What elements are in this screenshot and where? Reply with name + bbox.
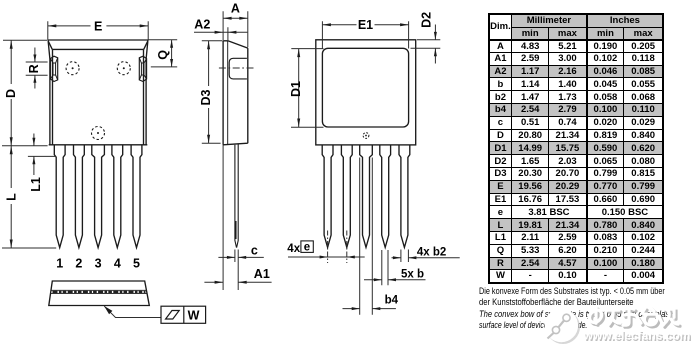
bottom view lead row (dashes) <box>53 291 146 293</box>
note line 2 (German) <box>479 296 634 307</box>
dimension c lines <box>218 250 263 291</box>
dimension D2 lines <box>411 25 441 64</box>
leader arrow to W frame <box>104 306 161 318</box>
dimension A extension + line <box>223 11 248 47</box>
back view substrate (rounded rect) <box>322 48 408 127</box>
back view bottom hole (small dashed circle) <box>363 133 369 139</box>
back view pin 3 <box>360 145 373 248</box>
note line 3 (English italic) <box>479 308 677 319</box>
arrowheads front view <box>10 24 173 248</box>
dimension L1 lines <box>28 134 56 176</box>
svg-text:www.elecfans.com: www.elecfans.com <box>583 329 691 343</box>
note line 4 (English italic) <box>479 319 587 330</box>
pin 2 centerline <box>346 231 348 264</box>
bottom view outline <box>49 281 150 306</box>
side view inner edge line <box>227 41 229 144</box>
front view body outline <box>48 40 148 145</box>
front view pin 1 <box>54 145 65 248</box>
back view hole dot <box>365 135 367 137</box>
side view arrowheads <box>207 17 248 284</box>
dimension table <box>488 13 665 284</box>
side view tab profile <box>229 58 247 79</box>
dimension D1 lines <box>291 49 324 128</box>
front view pin 4 <box>112 145 123 248</box>
side view labels <box>194 1 270 281</box>
dimension Q lines <box>148 40 177 67</box>
front view pin 2 <box>74 145 85 248</box>
dimension L line <box>2 146 56 248</box>
side view body outline <box>223 41 248 145</box>
back view arrowheads <box>297 23 437 310</box>
front view left mounting tab <box>50 56 57 81</box>
watermark url text <box>583 329 692 344</box>
dimension A1 lines <box>204 145 271 290</box>
back view body outline <box>316 40 416 145</box>
mounting hole left (dashed circle) <box>66 62 79 75</box>
dimension R lines <box>26 48 48 89</box>
mounting hole bottom (dashed circle) <box>92 127 105 140</box>
dimension A2 line <box>194 27 247 40</box>
front view right mounting tab <box>139 56 146 81</box>
side view hole centerline (dash-dot) <box>219 67 254 69</box>
front view dimension labels <box>4 19 170 270</box>
bottom view parting lines <box>51 290 147 293</box>
back view labels <box>287 12 446 307</box>
front view pin 5 <box>131 145 142 248</box>
note line 1 (German) <box>479 285 665 296</box>
dimension lines and extension lines (thin) <box>2 21 177 248</box>
dimension b4 lines <box>343 158 396 315</box>
front view pin 3 <box>92 145 105 248</box>
back view pin 1 <box>322 145 333 248</box>
dimension 4x b2 lines <box>392 250 460 263</box>
watermark chinese glyphs (stylized) <box>592 309 681 327</box>
pin 1 centerline <box>327 231 329 264</box>
flatness feature control frame W <box>161 306 206 323</box>
dimension 4x e line <box>288 256 365 258</box>
mounting hole right (dashed circle) <box>117 62 130 75</box>
watermark logo circle <box>545 309 581 344</box>
dimension D3 lines <box>202 41 223 144</box>
dimension D extension + line <box>2 40 48 146</box>
hole center dots <box>72 67 125 134</box>
back view pin 4 <box>380 145 391 248</box>
back view pin 2 <box>341 145 352 248</box>
back view pin 5 <box>399 145 410 248</box>
dimension 5x b lines <box>364 250 426 285</box>
dimension E1 lines <box>322 21 408 48</box>
dimension E extension + line <box>48 21 148 40</box>
side view pin <box>235 144 238 248</box>
